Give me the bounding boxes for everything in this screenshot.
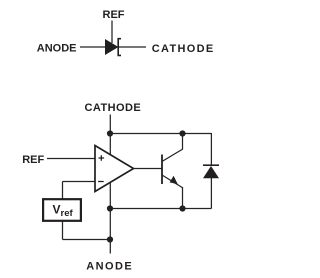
wire top bus — [110, 133, 211, 135]
transistor Q1 base bar — [161, 155, 163, 185]
wire Vref return (horizontal) — [63, 239, 111, 241]
cathode bar with ref bracket (TL431 symbol) — [118, 39, 121, 56]
op-amp plus sign — [99, 155, 105, 161]
wire REF input — [47, 158, 95, 160]
transistor Q1 collector diagonal — [162, 149, 183, 162]
wire cathode lead (top symbol) — [118, 46, 146, 48]
wire anode lead (top symbol) — [80, 46, 106, 48]
svg-text:REF: REF — [103, 9, 125, 21]
junction dot cathode/top-bus node — [107, 130, 113, 136]
op-amp minus sign — [98, 181, 104, 183]
svg-text:CATHODE: CATHODE — [152, 43, 215, 55]
wire right branch lower (diode anode) — [210, 177, 212, 209]
wire op-amp positive supply — [109, 134, 111, 157]
wire emitter to anode bus — [182, 188, 184, 209]
diode D1 cathode bar — [203, 164, 219, 166]
svg-text:ANODE: ANODE — [37, 43, 77, 55]
svg-text:CATHODE: CATHODE — [85, 102, 142, 114]
junction dot Vref/anode node — [107, 236, 113, 242]
wire mid rail (anode bus) — [110, 208, 211, 210]
wire op-amp output to base — [134, 168, 163, 170]
wire REF lead (top symbol) — [111, 21, 113, 44]
wire inverting input (horizontal) — [63, 181, 96, 183]
svg-text:REF: REF — [22, 154, 44, 166]
thyristor-symbol triangle (TL431 symbol) — [105, 39, 118, 55]
wire anode stub — [109, 209, 111, 254]
transistor Q1 emitter arrow — [170, 176, 178, 184]
junction dot op-amp supply/anode node — [107, 205, 113, 211]
wire Vref return (vertical) — [62, 222, 64, 240]
wire right branch upper (to diode) — [210, 133, 212, 165]
transistor Q1 emitter diagonal — [162, 175, 183, 188]
junction dot collector/top-bus node — [179, 130, 185, 136]
wire cathode stub — [109, 115, 111, 134]
op-amp U1 triangle — [95, 146, 134, 192]
wire op-amp negative supply — [109, 182, 111, 209]
junction dot emitter/anode node — [179, 205, 185, 211]
wire collector to top bus — [182, 134, 184, 150]
diode D1 triangle — [203, 166, 219, 178]
wire inverting input (vertical to Vref) — [62, 182, 64, 200]
Vref box — [43, 199, 81, 221]
svg-text:ANODE: ANODE — [86, 261, 133, 273]
